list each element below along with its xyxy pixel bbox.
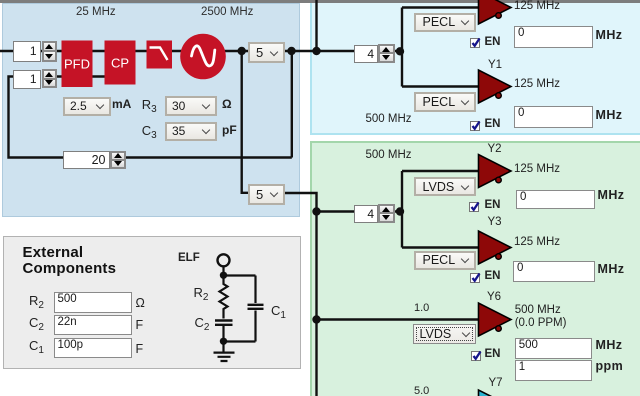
- label: external capacitor C1: [29, 338, 44, 353]
- label: Y6 output frequency 500 MHz: [515, 304, 561, 316]
- label: schematic capacitor C2: [195, 315, 210, 330]
- top gray divider line: [0, 0, 640, 3]
- External Components panel (gray): [3, 236, 301, 369]
- spinner buttons: output divider 4 (bank B): [378, 204, 395, 223]
- heading: External: [23, 244, 84, 261]
- label: Y0 EN: [485, 36, 501, 48]
- label: Y6 ppm error (0.0 PPM): [515, 317, 567, 329]
- label: Y6 divider ratio 1.0: [414, 302, 429, 314]
- right branch lower: [254, 311, 256, 342]
- label: Y3 MHz unit: [598, 262, 625, 276]
- node: ELF top junction: [220, 272, 227, 279]
- svg-text:CP: CP: [111, 56, 129, 71]
- label: Y6 ppm unit: [596, 359, 624, 373]
- wire terminal to node: [222, 267, 224, 276]
- label: Y3 output frequency 125 MHz: [514, 236, 560, 248]
- buffer Y2: [479, 155, 512, 188]
- node: green trunk top: [312, 207, 320, 215]
- spinner: feedback divider value 20: [63, 151, 110, 169]
- label: PFD input frequency 25 MHz: [76, 6, 116, 18]
- label: ELF node: [178, 252, 200, 264]
- wire: feedback from node after /5 down: [291, 51, 293, 158]
- buffer Y7 (cyan, clipped at bottom): [479, 390, 512, 396]
- dropdown: prescaler divide-by-5 (bank B): [248, 184, 285, 205]
- label: Y0 output frequency 125 MHz: [514, 0, 560, 12]
- VCO: [180, 34, 226, 80]
- heading: Components: [23, 260, 117, 277]
- svg-text:PFD: PFD: [64, 57, 90, 72]
- input: Y6 allowed ppm deviation 1: [515, 360, 593, 381]
- input: R2 value 500: [54, 292, 133, 313]
- node: after /4 cyan: [396, 47, 404, 55]
- ELF terminal: [218, 254, 230, 266]
- input: Y3 desired frequency 0: [513, 261, 595, 282]
- wire: to Y0 buffer: [402, 6, 480, 8]
- resistor R2 lead + zigzag: [220, 275, 228, 319]
- label: R2 unit ohm: [136, 296, 145, 310]
- wire: PFD/CP bottom row: [57, 75, 106, 77]
- buffer Y1: [479, 70, 512, 103]
- spinner buttons: reference divider: [42, 41, 58, 63]
- wire node to right branch: [224, 274, 256, 276]
- wire bottom node to right branch: [224, 340, 256, 342]
- input: C2 value 22n: [54, 315, 133, 336]
- wire: VCO output down to second /5 divider: [242, 51, 248, 193]
- wire: to Y3 buffer: [402, 246, 480, 248]
- label: C2 unit F: [136, 318, 144, 332]
- wire: to Y2 buffer: [402, 170, 480, 172]
- right branch upper: [254, 276, 256, 304]
- wire: green branch vertical: [401, 171, 403, 248]
- label: Y6 MHz unit: [596, 338, 623, 352]
- checkbox: Y2 EN (checked): [469, 202, 479, 212]
- loop filter block: [147, 41, 173, 69]
- label: external resistor R2: [29, 293, 44, 308]
- label: VCO frequency 2500 MHz: [201, 6, 253, 18]
- wire: cyan panel riser: [315, 0, 317, 51]
- label: output name Y7: [489, 377, 503, 389]
- dropdown: Y1 output type PECL: [414, 92, 477, 112]
- PLL panel (light blue): [2, 3, 300, 217]
- label: output name Y6: [487, 291, 501, 303]
- label: loop filter capacitor C3: [142, 123, 157, 138]
- input: C1 value 100p: [54, 338, 133, 359]
- spinner buttons: output divider 4 (bank A): [378, 44, 395, 63]
- input: Y1 desired frequency 0: [514, 106, 593, 128]
- dropdown: R3 value 30: [165, 96, 217, 116]
- label: external capacitor C2: [29, 315, 44, 330]
- output bank B panel (green): [310, 141, 640, 396]
- label: Y6 EN: [485, 348, 501, 360]
- ground stub: [222, 342, 224, 352]
- dropdown: Y0 output type PECL: [414, 13, 477, 32]
- node: Y6 tap: [312, 315, 320, 323]
- spinner: reference divider value 1: [13, 41, 41, 62]
- label: Y1 output frequency 125 MHz: [514, 78, 560, 90]
- wire: feedback horizontal through /20: [9, 77, 292, 158]
- wire: reference input to PFD top row: [0, 50, 403, 52]
- checkbox: Y6 EN (checked): [471, 351, 481, 361]
- CP block: [105, 41, 136, 85]
- label: charge pump unit mA: [112, 97, 131, 111]
- node: VCO output: [238, 47, 246, 55]
- label: bank B input frequency 500 MHz: [366, 149, 412, 161]
- input: Y2 desired frequency 0: [516, 190, 595, 209]
- spinner: output divider 4 (bank B): [354, 205, 378, 223]
- label: output name Y3: [488, 216, 502, 228]
- PFD block: [62, 41, 93, 88]
- node: after /4 green: [396, 207, 404, 215]
- buffer Y3: [479, 231, 512, 264]
- label: R3 unit ohm: [222, 97, 232, 111]
- checkbox: Y3 EN (checked): [470, 273, 480, 283]
- dropdown: Y2 output type LVDS: [414, 177, 476, 196]
- label: output name Y2: [488, 143, 502, 155]
- capacitor C2 plates: [215, 321, 233, 325]
- output bank A panel (cyan): [310, 0, 640, 135]
- buffer Y6: [479, 303, 512, 336]
- label: Y1 MHz unit: [596, 108, 623, 122]
- label: Y2 EN: [485, 199, 501, 211]
- label: Y1 EN: [485, 118, 501, 130]
- External components schematic: [214, 254, 264, 361]
- label: schematic capacitor C1: [271, 303, 286, 318]
- dropdown: prescaler divide-by-5 (bank A): [248, 42, 285, 63]
- dropdown: Y3 output type PECL: [414, 251, 476, 270]
- dropdown: charge pump current 2.5: [63, 97, 111, 117]
- wire: cyan branch vertical: [401, 8, 403, 87]
- dropdown: Y6 output type LVDS (focused): [413, 324, 476, 344]
- label: schematic resistor R2: [194, 285, 209, 300]
- wire: to Y1 buffer: [402, 85, 480, 87]
- label: C3 unit pF: [222, 123, 237, 137]
- capacitor C1 plates: [248, 305, 264, 309]
- ground bars: [214, 353, 235, 361]
- checkbox: Y0 EN (checked): [470, 38, 480, 48]
- spinner: feedback input divider value 1: [13, 70, 41, 89]
- label: Y0 MHz unit: [596, 28, 623, 42]
- wire: green trunk down: [315, 212, 317, 396]
- wire C2 to ground node: [222, 326, 224, 341]
- node: ground junction: [220, 338, 227, 345]
- input: Y6 desired frequency 500: [515, 338, 593, 359]
- input: Y0 desired frequency 0: [514, 26, 593, 48]
- label: Y2 output frequency 125 MHz: [514, 163, 560, 175]
- wire: second /5 output to green divider: [285, 193, 404, 212]
- label: output name Y1: [488, 59, 502, 71]
- spinner buttons: feedback divider 20: [110, 151, 126, 169]
- node: after /5 (feedback tap): [287, 47, 295, 55]
- label: Y3 EN: [485, 270, 501, 282]
- label: loop filter resistor R3: [142, 97, 157, 112]
- spinner buttons: feedback input divider: [42, 69, 58, 88]
- buffer Y0: [479, 0, 512, 24]
- dropdown: C3 value 35: [165, 122, 217, 141]
- label: Y2 MHz unit: [598, 188, 625, 202]
- label: bank A input frequency 500 MHz: [366, 113, 412, 125]
- checkbox: Y1 EN (checked): [470, 121, 480, 131]
- label: C1 unit F: [136, 342, 144, 356]
- node: cyan trunk: [312, 47, 320, 55]
- spinner: output divider 4 (bank A): [354, 45, 378, 63]
- label: Y7 divider ratio 5.0: [414, 385, 429, 396]
- wire: to Y6 buffer: [317, 318, 481, 320]
